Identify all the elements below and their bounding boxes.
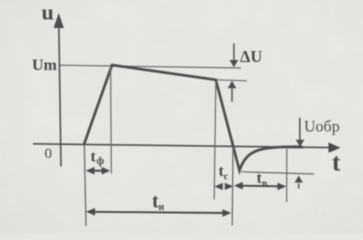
Um level line <box>60 65 241 68</box>
Uobr up arrow <box>295 176 303 189</box>
Uobr down arrow <box>296 118 305 147</box>
dU up arrow <box>228 81 237 102</box>
marker line from peak <box>110 66 113 174</box>
pulse waveform <box>84 65 302 171</box>
t_c dimension arrows <box>214 183 233 190</box>
marker line from fall corner <box>214 82 216 200</box>
t_i dimension arrow <box>86 208 231 217</box>
marker line left (pulse start) <box>84 145 86 226</box>
t axis arrowhead <box>329 142 341 153</box>
recovery tail thick segment <box>283 145 303 148</box>
paper mottle <box>0 0 1 1</box>
undershoot min level line <box>242 172 315 174</box>
u axis arrowhead <box>54 13 64 28</box>
marker line recovery end <box>286 149 288 202</box>
u axis (vertical) <box>59 17 61 167</box>
marker line fall axis-crossing <box>231 147 234 226</box>
t axis (horizontal) <box>33 144 331 148</box>
dU down arrow <box>230 43 239 67</box>
t_v dimension arrow <box>234 182 286 190</box>
t_f dimension arrow <box>86 167 111 175</box>
droop level line <box>216 80 247 81</box>
